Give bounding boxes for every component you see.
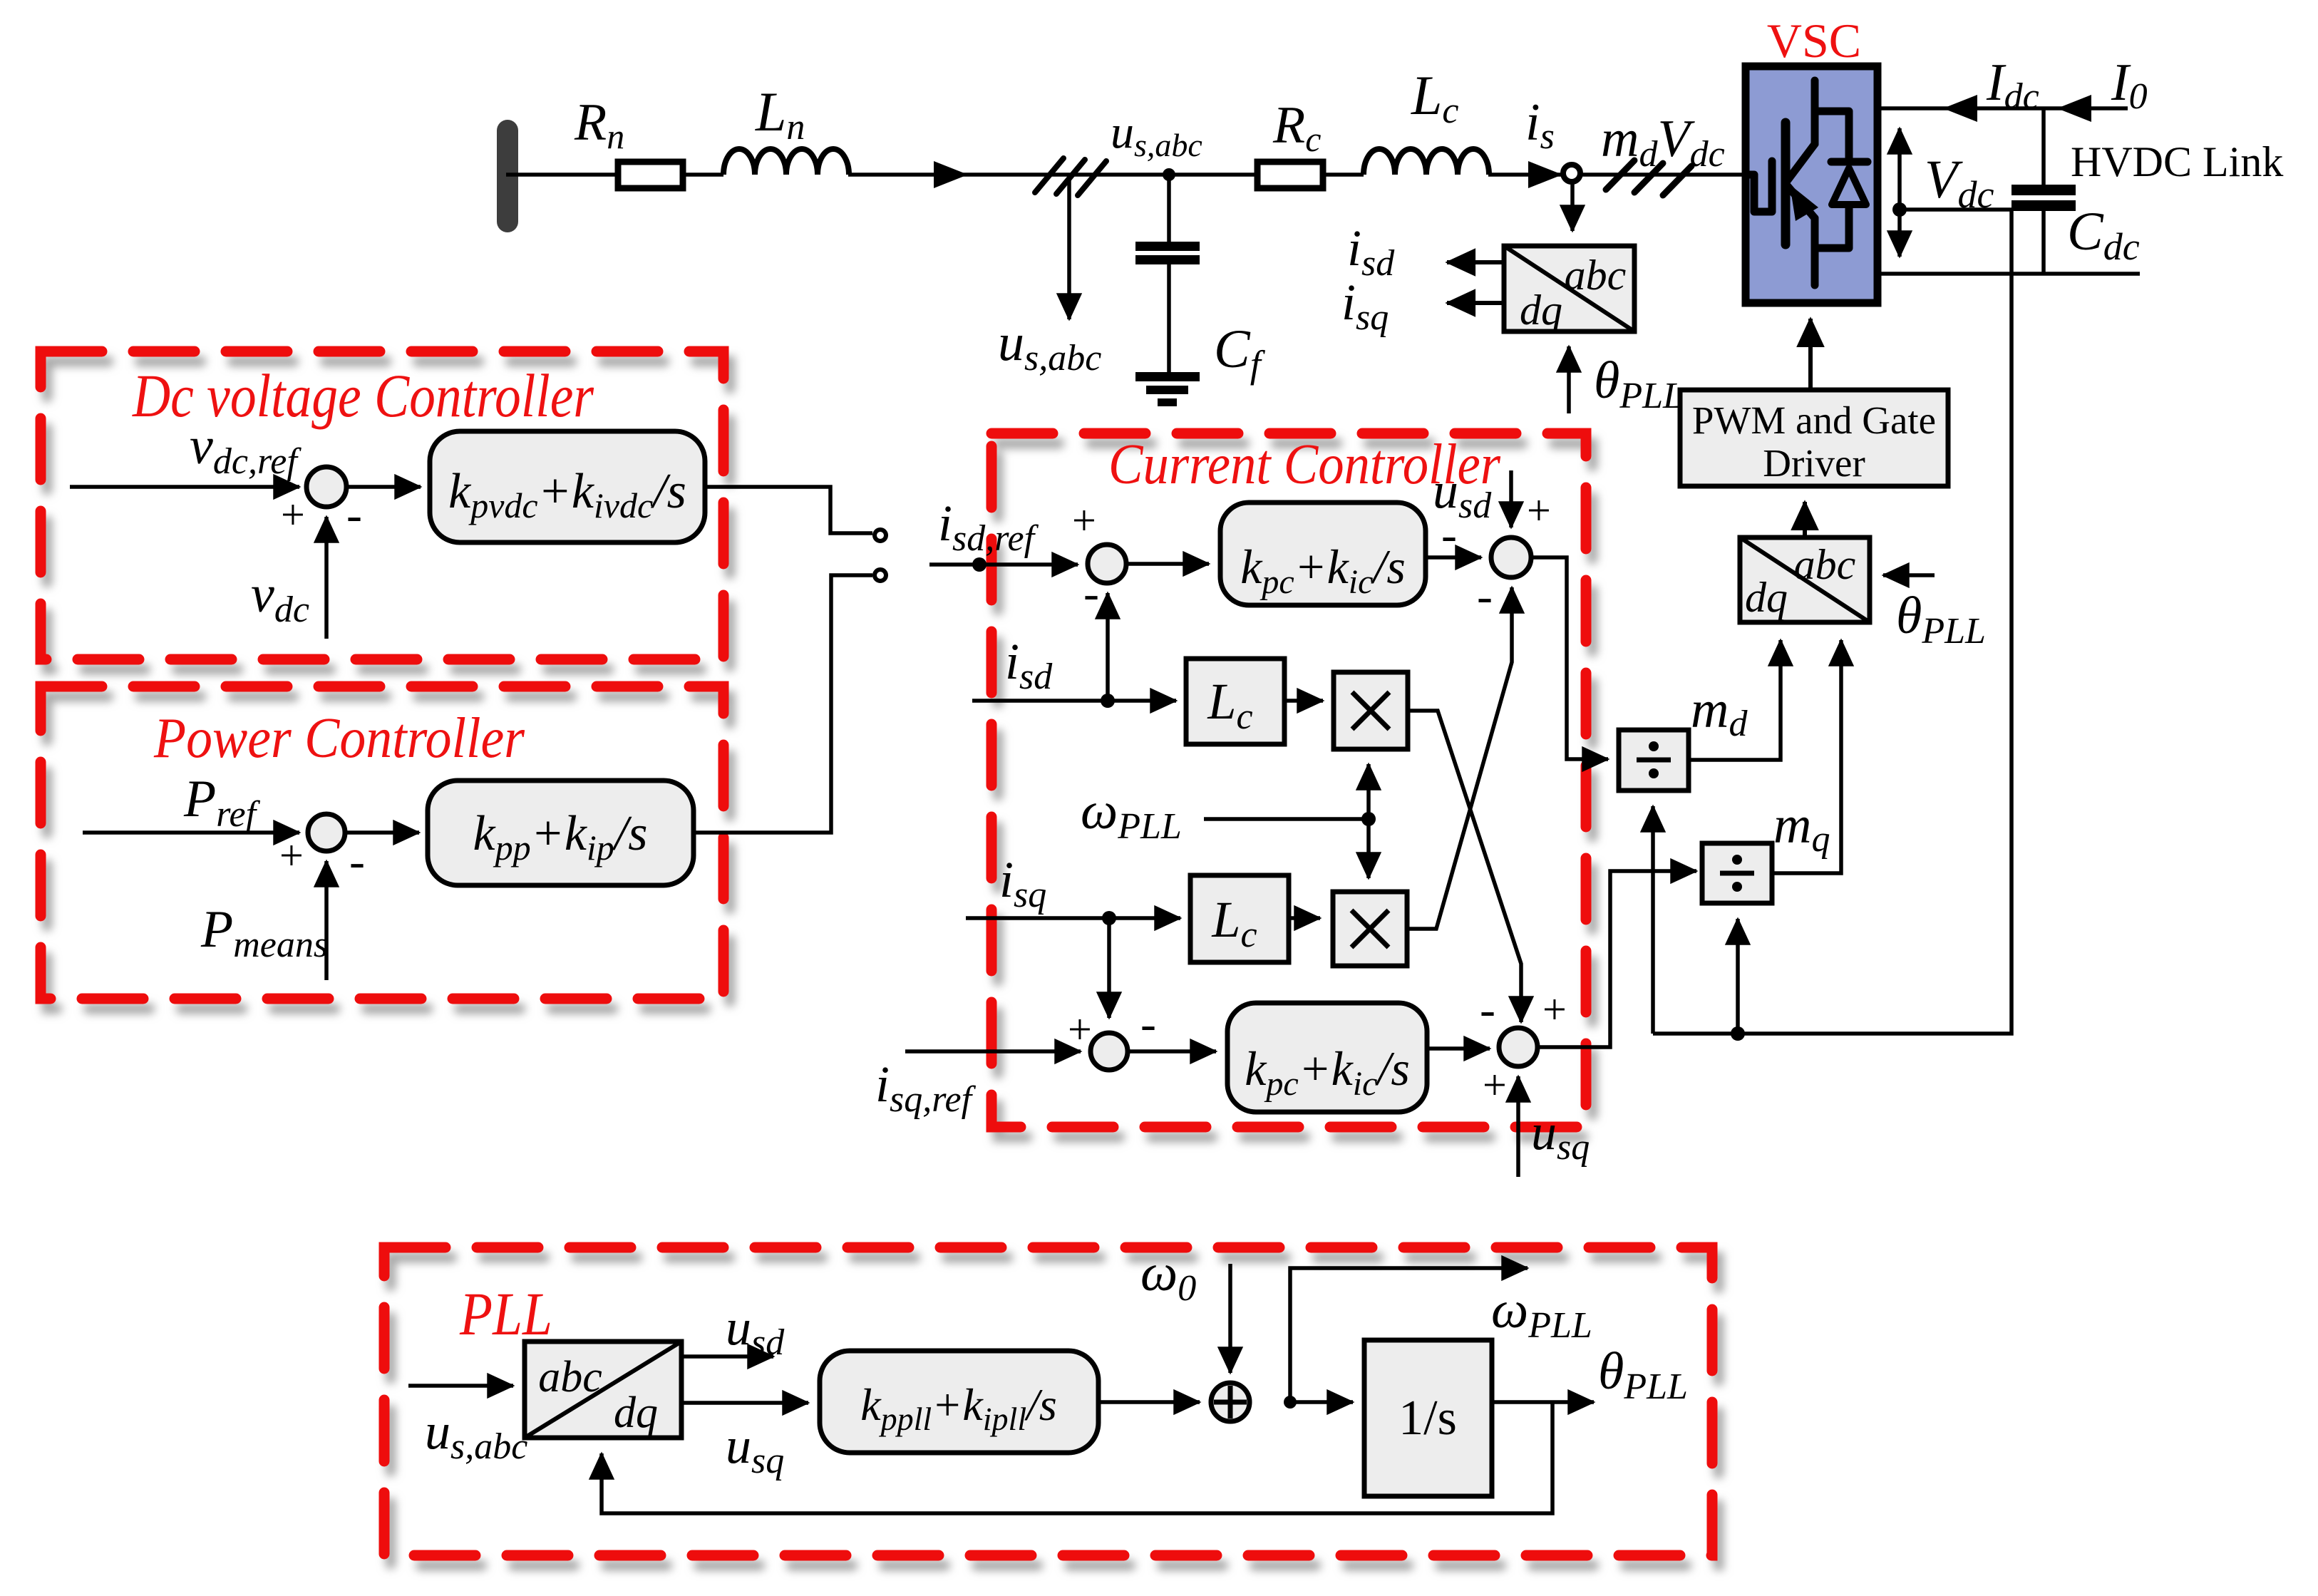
arrow S2 to PI (345, 830, 419, 835)
svg-text:+: + (1072, 497, 1096, 544)
svg-text:Power Controller: Power Controller (153, 707, 525, 770)
svg-text:PWM and Gate: PWM and Gate (1692, 398, 1936, 442)
divider block md (1619, 730, 1689, 791)
wire bus to Rn (506, 173, 618, 177)
summing junction S1 (307, 467, 346, 507)
arrow abc/dq U2 to PWM (1803, 502, 1807, 537)
PLL dashed frame (384, 1247, 1712, 1555)
svg-text:-: - (346, 489, 362, 541)
wire Lc to is terminal (1488, 173, 1563, 177)
wire Ln to node with arrow (848, 173, 1169, 177)
PI block kpp+kip/s (428, 781, 694, 885)
md output wire (1689, 640, 1781, 760)
omegaPLL branch out (1290, 1268, 1528, 1402)
wire node to Rc (1169, 173, 1257, 177)
integrator block 1/s (1364, 1340, 1492, 1496)
isq,ref input wire (905, 1049, 1081, 1054)
arrow kpc1 to S5 (1426, 555, 1481, 560)
diode bottom bracket (1815, 205, 1849, 248)
IGBT emitter diagonal (1787, 185, 1815, 218)
isd input wire (972, 699, 1176, 703)
svg-text:+: + (1542, 986, 1567, 1033)
usd output PLL (681, 1354, 773, 1359)
svg-text:-: - (349, 835, 365, 887)
arrow kpc2 to S6 (1427, 1046, 1490, 1051)
gain block Lc2 (1190, 875, 1289, 962)
svg-text:+: + (1068, 1006, 1092, 1053)
arrowhead on AC wire (934, 161, 968, 188)
svg-text:-: - (1480, 984, 1495, 1036)
arrow S4 to kpc2 (1128, 1049, 1216, 1054)
junction on Vdc feedback (1731, 1026, 1745, 1041)
diode triangle (1832, 168, 1866, 205)
Vdc feedback wire to dividers (1653, 210, 2011, 1034)
svg-text:-: - (1441, 509, 1457, 561)
switch terminal T1 (875, 530, 886, 541)
summing junction S7 (circle plus) (1211, 1383, 1250, 1421)
Idc arrowhead (1943, 95, 1977, 122)
multiplier X2 (1333, 892, 1407, 966)
svg-text:dq: dq (1520, 287, 1562, 334)
isd,ref input wire (929, 562, 1078, 567)
node on isq (1102, 911, 1116, 925)
thetaPLL input into U2 (1883, 573, 1935, 577)
Pmeans feedback arrow (324, 861, 329, 980)
svg-text:VSC: VSC (1767, 14, 1861, 68)
arrow PWM to VSC (1808, 319, 1813, 390)
svg-text:+: + (1483, 1061, 1507, 1108)
IGBT emitter lead (1811, 218, 1819, 285)
isd to S3 minus arrow (1106, 593, 1110, 701)
svg-text:dq: dq (1745, 574, 1788, 621)
node on isd (1101, 694, 1115, 708)
bottom DC wire (1877, 272, 2140, 276)
Power controller output wire to switch (694, 575, 872, 833)
wire Rc to Lc (1323, 173, 1364, 177)
is terminal circle (1563, 165, 1580, 182)
thetaPLL stub into abc/dq U1 (1567, 346, 1571, 413)
resistor Rn (618, 162, 683, 188)
DC controller output wire to switch (705, 487, 872, 533)
summing junction S5 (usd) (1491, 537, 1531, 577)
isq output arrow (1447, 301, 1504, 305)
Current Controller dashed frame (991, 433, 1586, 1127)
usq output PLL (681, 1401, 808, 1405)
vdc,ref input wire (70, 485, 299, 489)
drop from is terminal to abc-dq (1570, 182, 1575, 231)
svg-text:abc: abc (538, 1353, 602, 1401)
node on Vdc line (1892, 202, 1907, 217)
isq down to S4 (1107, 918, 1111, 1018)
three-phase slashes at us,abc (1035, 158, 1063, 192)
isd output arrow (1447, 260, 1504, 264)
node after S7 (1284, 1396, 1297, 1409)
isq input wire (966, 916, 1180, 920)
IGBT collector diagonal (1787, 144, 1815, 181)
summing junction S4 (1091, 1033, 1128, 1070)
IGBT gate bar (1768, 161, 1776, 212)
svg-text:+: + (279, 832, 304, 879)
IGBT collector lead (1811, 81, 1819, 144)
ground (1135, 372, 1200, 381)
bus bar (497, 120, 518, 232)
mq output wire (1772, 640, 1841, 873)
divider md bottom input (1651, 806, 1655, 1034)
omegaPLL wire (1204, 817, 1369, 821)
PI block kpc+kic/s q-axis (1227, 1003, 1427, 1112)
divider block mq (1702, 843, 1772, 903)
omega0 input arrow (1228, 1264, 1232, 1373)
svg-text:dq: dq (614, 1389, 658, 1437)
us,abc input to PLL (408, 1384, 513, 1388)
capacitor Cf (1167, 175, 1171, 243)
three-phase slashes at VSC input (1606, 160, 1634, 190)
node on omegaPLL (1361, 812, 1376, 826)
diode cathode bar (1831, 158, 1868, 166)
PI block kpvdc+kivdc/s (430, 431, 705, 542)
svg-text:1/s: 1/s (1398, 1391, 1457, 1446)
svg-text:+: + (1527, 487, 1551, 534)
PI block kppll+kipll/s (820, 1351, 1098, 1453)
wire Rn to Ln (683, 173, 723, 177)
arrow node to integrator (1290, 1400, 1353, 1404)
svg-text:abc: abc (1565, 252, 1627, 299)
abc/dq block U2 (dq to abc) (1740, 537, 1870, 622)
svg-text:abc: abc (1794, 541, 1856, 588)
usd stub (1509, 470, 1513, 527)
PWM and Gate Driver box (1680, 390, 1948, 486)
svg-text:PLL: PLL (459, 1280, 552, 1348)
arrowhead at is (1528, 161, 1562, 188)
vdc feedback arrow (324, 517, 329, 639)
node on isd,ref (972, 557, 987, 572)
Pref input wire (83, 830, 299, 835)
svg-text:+: + (281, 491, 305, 538)
IGBT emitter arrow (1790, 185, 1818, 221)
node us,abc (1163, 168, 1175, 181)
VSC converter block (1746, 66, 1877, 303)
multiplier X1 (1334, 672, 1408, 749)
inductor Lc (1364, 149, 1489, 175)
cross wire X2 to S5 (1407, 587, 1512, 929)
Vdc measuring double arrow (1897, 128, 1902, 257)
svg-text:HVDC Link: HVDC Link (2071, 138, 2283, 185)
divider mq bottom input (1736, 919, 1740, 1034)
I0 arrowhead (2057, 95, 2091, 122)
summing junction S6 (usq) (1499, 1028, 1537, 1066)
svg-text:Driver: Driver (1763, 441, 1865, 485)
svg-text:-: - (1477, 570, 1493, 622)
svg-text:-: - (1083, 567, 1099, 619)
PLL feedback wire (602, 1402, 1552, 1513)
thetaPLL output arrow (1492, 1400, 1594, 1404)
switch terminal T2 (875, 570, 886, 581)
S5 output to divider md (1531, 557, 1608, 759)
cross wire X1 to S6 (1408, 711, 1521, 1022)
summing junction S2 (308, 814, 345, 851)
usq stub (1516, 1076, 1520, 1177)
arrow kppll to S7 (1098, 1400, 1200, 1404)
arrow Lc2 to X2 (1289, 916, 1320, 920)
resistor Rc (1257, 162, 1323, 188)
omegaPLL down to X2 (1366, 819, 1371, 878)
arrow S3 to kpc1 (1126, 562, 1209, 566)
IGBT body bar (1781, 123, 1791, 244)
arrow S1 to PI (346, 485, 421, 489)
S6 output to divider mq (1537, 871, 1696, 1047)
gain block Lc1 (1186, 659, 1284, 744)
top DC wire (1877, 106, 2128, 110)
inductor Ln (723, 149, 849, 175)
abc/dq block U1 (1504, 246, 1634, 331)
PI block kpc+kic/s d-axis (1220, 503, 1426, 605)
svg-text:-: - (1140, 998, 1156, 1050)
omegaPLL up to X1 (1366, 764, 1371, 819)
Dc voltage Controller dashed frame (41, 351, 723, 659)
capacitor Cdc (2041, 108, 2046, 185)
abc/dq block U3 (PLL) (525, 1342, 681, 1438)
measurement drop us,abc (1067, 175, 1071, 319)
Power Controller dashed frame (41, 686, 723, 999)
summing junction S3 (1088, 545, 1126, 583)
IGBT gate lead (1746, 175, 1772, 212)
diode top bracket (1815, 111, 1849, 162)
wire is to VSC (1580, 173, 1746, 177)
arrow Lc1 to X1 (1284, 699, 1323, 703)
